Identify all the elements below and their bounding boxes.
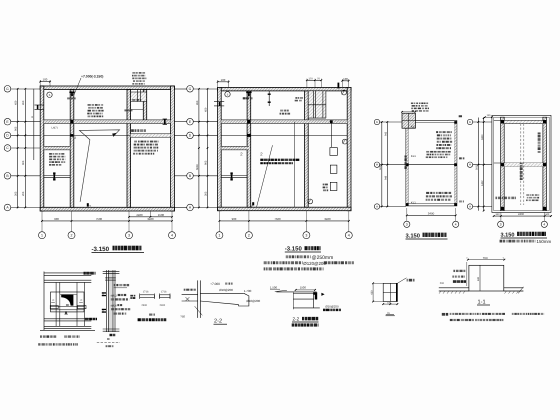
detailF left dim xyxy=(372,283,374,301)
plan1 I-tick at B row xyxy=(53,172,55,174)
plan1 bottom extension lines xyxy=(41,211,43,231)
detailG top dim 700 xyxy=(468,259,504,261)
plan2 section circle bottom xyxy=(308,199,313,204)
detailC bar2 xyxy=(160,295,170,298)
svg-text:Ø10@200: Ø10@200 xyxy=(246,299,260,303)
svg-text:3.150: 3.150 xyxy=(501,232,515,238)
detailA wall verticals xyxy=(55,282,57,326)
plan2 subtitle line3 xyxy=(264,267,265,270)
svg-text:303: 303 xyxy=(204,191,207,196)
plan1 annotation block c rooms left xyxy=(49,153,52,155)
svg-text:903: 903 xyxy=(22,160,25,165)
detailB second rung xyxy=(105,277,116,279)
svg-text:1402: 1402 xyxy=(481,180,484,186)
plan4 bottom dim xyxy=(494,215,551,217)
plan2 bold note line1 xyxy=(260,159,263,161)
plan2 subtitle line2 xyxy=(264,261,267,264)
svg-text:2-2: 2-2 xyxy=(293,317,300,322)
detailA bold label row3 xyxy=(85,318,89,320)
svg-text:1-1: 1-1 xyxy=(478,299,486,305)
plan2 leader line for note xyxy=(257,145,273,207)
detailF flag leader xyxy=(397,278,406,284)
plan1 row D line and band xyxy=(44,134,171,136)
plan2 subtitle line1 xyxy=(286,255,289,258)
detailA slab lines row4 xyxy=(44,325,91,327)
plan3 rotated WKL1 label xyxy=(404,155,406,169)
detailA center square outer xyxy=(51,292,85,312)
detailC bold caption xyxy=(138,318,141,321)
svg-text:KL1: KL1 xyxy=(411,154,416,158)
plan2 bold note line2 xyxy=(260,162,263,164)
plan2 bottom extension lines xyxy=(218,211,220,232)
plan3 bottom grid circles xyxy=(404,221,410,227)
detailA center bottom tick xyxy=(65,311,66,314)
plan2 row B double line with I-tick xyxy=(221,175,247,177)
detailD texts xyxy=(184,289,186,291)
plan2 top dim 100 right xyxy=(342,80,348,82)
plan1 node at 2-E xyxy=(70,120,73,123)
detailA black hook blob xyxy=(61,295,73,306)
svg-text:3400: 3400 xyxy=(324,217,331,221)
detailA slab lines row2 xyxy=(44,279,91,281)
plan4 nodes xyxy=(501,120,504,123)
svg-text:A: A xyxy=(376,205,378,209)
plan1 annotation text 500x500 opening xyxy=(131,129,134,132)
detailD right slab xyxy=(200,292,244,294)
svg-text:-3.150: -3.150 xyxy=(285,245,303,252)
plan4 row K band xyxy=(504,120,543,123)
plan1 outer wall top xyxy=(40,86,174,90)
plan3 outline xyxy=(406,121,457,206)
svg-text:600: 600 xyxy=(477,276,480,281)
plan1 ramp polyline xyxy=(79,130,119,202)
plan3 row H line xyxy=(406,164,457,166)
plan2 left dimension chains xyxy=(198,89,200,208)
svg-text:5000: 5000 xyxy=(476,164,479,170)
svg-text:700: 700 xyxy=(483,256,488,260)
detailC bar1 xyxy=(140,295,155,298)
detailG left arm xyxy=(439,287,469,289)
svg-text:4: 4 xyxy=(543,223,545,227)
plan3 text block right3 xyxy=(426,192,429,194)
plan2 section mark 2 bottom xyxy=(252,202,254,205)
detailE slab body xyxy=(293,293,315,295)
plan4 bottom annotation right xyxy=(526,194,529,196)
svg-text:340: 340 xyxy=(545,213,550,216)
detailA caption line2 xyxy=(38,343,40,345)
svg-text:4Ø12: 4Ø12 xyxy=(111,295,118,298)
svg-text:100: 100 xyxy=(221,78,226,82)
plan2 outer wall top xyxy=(218,87,351,91)
plan1 left dimension chains xyxy=(17,89,19,208)
svg-text:1: 1 xyxy=(41,234,43,238)
detailF rect body xyxy=(383,283,397,301)
plan1 top dim 100 xyxy=(40,81,50,83)
svg-text:3: 3 xyxy=(406,223,408,227)
svg-text:3.150: 3.150 xyxy=(406,232,421,239)
detailA ear left xyxy=(50,306,58,309)
detailA MX text xyxy=(66,304,69,305)
svg-text:KL1: KL1 xyxy=(411,125,416,129)
plan4 rotated label KL1 center xyxy=(520,163,523,180)
plan1 interior wall right of stair xyxy=(143,90,146,122)
plan1 wall band row C xyxy=(44,146,70,150)
svg-text:170: 170 xyxy=(308,77,313,80)
plan1 grid row lines xyxy=(11,88,40,90)
plan2 node at 2-E xyxy=(247,120,251,124)
svg-text:5000: 5000 xyxy=(379,164,382,170)
detailG left text rows xyxy=(453,270,454,272)
plan2 annotation 150 150 above xyxy=(243,97,246,99)
svg-text:L4(7): L4(7) xyxy=(52,127,58,130)
plan3 grid row extension lines xyxy=(380,121,406,123)
plan2 flag at top of grid2 wall xyxy=(246,92,251,94)
svg-text:4: 4 xyxy=(171,234,173,238)
svg-text:?50: ?50 xyxy=(180,315,185,319)
plan3 wall hatch right xyxy=(455,122,457,203)
detailA bold label 150X750 top xyxy=(84,272,86,275)
plan1 annotation block b above top-right xyxy=(132,72,135,74)
detailA center square inner xyxy=(60,295,77,312)
svg-text:600: 600 xyxy=(370,290,373,295)
plan2 bottom dimension row xyxy=(219,220,348,222)
notes heading xyxy=(442,313,445,316)
plan4 bottom grid circles xyxy=(498,221,504,227)
svg-text:450: 450 xyxy=(22,100,25,105)
plan1 right shared grid circles xyxy=(187,86,194,93)
svg-text:2: 2 xyxy=(89,205,91,209)
svg-text:G: G xyxy=(189,87,192,91)
detailE ground slash xyxy=(275,290,287,291)
plan2 room divider line xyxy=(294,122,296,208)
plan1 outer wall right xyxy=(171,86,175,211)
svg-text:2400: 2400 xyxy=(142,304,148,307)
detailG right arm xyxy=(504,287,524,289)
svg-text:2: 2 xyxy=(248,234,250,238)
plan4 dashed beam lines xyxy=(520,124,522,205)
plan1 bottom dimension row1 2400 1500 xyxy=(129,216,172,218)
svg-text:5600: 5600 xyxy=(196,164,199,170)
detailE top line xyxy=(276,291,316,293)
svg-text:2: 2 xyxy=(71,234,73,238)
svg-text:1.700: 1.700 xyxy=(244,289,252,293)
svg-text:+7.000(-3.150): +7.000(-3.150) xyxy=(81,74,103,78)
plan3 nodes xyxy=(406,163,409,166)
svg-text:4Ø20: 4Ø20 xyxy=(111,305,118,308)
plan1 annotation 150 150 xyxy=(67,97,70,99)
plan2 interior axis circle 5 xyxy=(225,92,230,97)
plan1 small label 40x40 xyxy=(124,109,126,111)
plan2 annotation 150 150 near wall2 xyxy=(243,97,246,99)
detailB bold mark right xyxy=(130,295,133,297)
plan3 text block right1 xyxy=(436,131,438,133)
plan2 wall band row E xyxy=(221,120,347,124)
plan2 grid extension lines from shared circles xyxy=(194,88,218,90)
svg-text:943: 943 xyxy=(385,131,388,136)
plan1 flag at top of grid2 wall xyxy=(69,92,74,94)
svg-text:900: 900 xyxy=(232,217,237,221)
svg-text:3400: 3400 xyxy=(481,134,484,140)
svg-text:4: 4 xyxy=(455,223,457,227)
detailC arrow marks xyxy=(149,314,152,316)
plan4 left grid circles xyxy=(467,119,472,124)
plan1 annotation block a xyxy=(88,104,91,106)
detailA caption line1 xyxy=(40,335,42,337)
plan2 stair block xyxy=(309,91,326,118)
plan4 subtitle xyxy=(500,240,503,243)
detailF bottom dim xyxy=(383,303,397,305)
detailD right end hook xyxy=(239,293,249,306)
plan1 stair block xyxy=(131,92,146,102)
svg-text:K: K xyxy=(469,120,471,124)
plan1 row B double line xyxy=(44,175,70,177)
plan2 beam tick left edge xyxy=(219,102,221,106)
svg-text:450: 450 xyxy=(196,100,199,105)
svg-text:2400: 2400 xyxy=(160,304,166,307)
svg-text:KL1: KL1 xyxy=(411,200,416,204)
detailB top wide rung xyxy=(103,270,120,272)
plan3 text above xyxy=(411,103,413,105)
plan1 interior axis circle 5 xyxy=(47,92,52,97)
plan2 interior wall grid3 xyxy=(305,91,309,207)
svg-text:1500: 1500 xyxy=(300,286,307,290)
plan2 top dim 170 70 xyxy=(307,79,321,81)
plan2 bottom grid circles xyxy=(216,232,223,239)
detailD leader diagonal xyxy=(195,306,203,315)
detailD vertical member xyxy=(197,280,199,318)
svg-text:7500: 7500 xyxy=(274,217,281,221)
detailB anchor marks left lower xyxy=(102,309,106,310)
svg-text:H: H xyxy=(376,163,378,167)
detailG hatch ticks under arms xyxy=(439,291,441,294)
plan2 section line with flags near top xyxy=(268,91,270,106)
detailB label below xyxy=(110,334,113,336)
plan2 interior wall grid2 xyxy=(247,91,251,207)
svg-text:100: 100 xyxy=(343,77,348,81)
detailB text finish surface xyxy=(114,284,115,286)
svg-text:450: 450 xyxy=(15,100,18,105)
plan1 left grid circles xyxy=(4,86,11,93)
detailA slab lines row3 xyxy=(44,318,91,320)
plan3 top-left column block xyxy=(402,113,415,128)
plan2 top dim 100 left xyxy=(218,81,229,83)
plan3 text block right2 xyxy=(426,151,429,153)
svg-text:Ø10@250: Ø10@250 xyxy=(325,305,339,309)
plan1 wall band row E xyxy=(44,120,171,124)
plan4 interior wall left xyxy=(501,117,505,210)
svg-text:1500: 1500 xyxy=(158,213,165,217)
plan2 outer wall right xyxy=(347,87,351,210)
svg-text:+7.000: +7.000 xyxy=(210,282,220,286)
plan1 annotation block d right room xyxy=(134,141,137,143)
svg-text:3400: 3400 xyxy=(428,212,435,216)
svg-text:340: 340 xyxy=(496,213,501,216)
svg-text:903: 903 xyxy=(204,160,207,165)
plan4 row H band xyxy=(494,162,547,164)
plan2 row D line xyxy=(221,134,347,136)
plan1 outer wall left xyxy=(40,86,44,211)
detailF thick right edge xyxy=(396,283,398,301)
plan3 left grid circles xyxy=(374,119,379,124)
plan2 section circle right mid xyxy=(342,139,347,144)
svg-text:A: A xyxy=(469,205,471,209)
detailB dashed line bottom xyxy=(97,341,120,343)
svg-text:Ø10@200: Ø10@200 xyxy=(219,288,233,292)
plan1 bottom dimension row2 xyxy=(42,220,172,222)
detailA slab lines row1 xyxy=(44,272,91,274)
plan4 rotated label WKL1 right xyxy=(538,132,541,152)
detailA left vertical line xyxy=(43,272,45,331)
detailE arrow xyxy=(321,293,324,296)
plan3 bottom dim xyxy=(407,214,456,216)
plan1 node at 2-D xyxy=(71,134,74,137)
svg-text:2400: 2400 xyxy=(518,213,524,216)
svg-text:-3.150: -3.150 xyxy=(92,246,110,253)
detailE caption bold sub xyxy=(292,323,294,326)
svg-text:2-2: 2-2 xyxy=(214,319,222,325)
plan4 bottom annotation left xyxy=(495,197,497,200)
plan2 thin wall line x331 xyxy=(330,122,332,147)
svg-text:G: G xyxy=(6,87,9,91)
plan1 section mark 2 bottom xyxy=(87,203,89,206)
svg-text:905: 905 xyxy=(15,126,18,131)
plan2 opening symbol 1 xyxy=(330,148,337,156)
svg-text:C: C xyxy=(81,299,83,302)
plan2 node at x331-E xyxy=(330,120,333,123)
plan2 opening symbol 2 xyxy=(330,165,337,173)
plan4 dimension chains xyxy=(477,118,479,211)
notes line2 xyxy=(450,319,453,321)
svg-text:3400: 3400 xyxy=(147,217,154,221)
plan4 grid row extension lines xyxy=(473,121,492,123)
plan4 top-left small dim xyxy=(485,116,492,118)
svg-text:1716: 1716 xyxy=(161,291,167,294)
svg-text:100: 100 xyxy=(43,78,48,82)
plan2 section circle right top xyxy=(342,90,347,95)
svg-text:303: 303 xyxy=(15,191,18,196)
plan4 interior wall right xyxy=(543,117,547,210)
plan2 outer wall left xyxy=(218,87,222,210)
plan3 right side KL labels xyxy=(459,115,462,117)
detailB bottom wide rung xyxy=(103,328,120,330)
svg-text:K: K xyxy=(376,120,378,124)
small dash left of notes xyxy=(386,315,396,317)
svg-text:450: 450 xyxy=(204,107,207,112)
plan1 bottom grid circles 1-4 xyxy=(39,232,46,239)
svg-text:1.500: 1.500 xyxy=(270,285,277,289)
svg-text:2: 2 xyxy=(74,136,76,140)
plan3 dimension chains xyxy=(381,122,383,207)
plan2 outer wall bottom xyxy=(218,207,351,211)
svg-text:4: 4 xyxy=(348,234,350,238)
svg-text:Ø120@200: Ø120@200 xyxy=(303,261,326,266)
plan1 beam tick on row E right xyxy=(164,119,166,124)
detailA bottom band xyxy=(50,306,84,308)
svg-text:946: 946 xyxy=(385,175,388,180)
detailA ear right xyxy=(78,306,87,309)
detailB wall grey infill xyxy=(108,270,113,332)
plan2 annotation beam up xyxy=(295,97,296,99)
plan1 interior wall grid3 xyxy=(127,90,131,208)
svg-text:200: 200 xyxy=(440,282,445,285)
svg-text:M: M xyxy=(31,116,34,118)
plan4 outline xyxy=(492,115,551,212)
plan1 beam tick left edge xyxy=(37,105,39,109)
detailB vertical wall double lines xyxy=(106,270,108,332)
svg-text:2400: 2400 xyxy=(136,213,143,217)
detailD left slab stub xyxy=(182,294,198,296)
notes line1 xyxy=(450,313,452,315)
detailB anchor marks left upper xyxy=(102,292,106,293)
plan2 node at 2-D xyxy=(247,134,250,137)
svg-text:1716: 1716 xyxy=(143,291,149,294)
plan3 wall hatch left xyxy=(406,122,408,203)
svg-text:3: 3 xyxy=(305,234,307,238)
plan2 annotation right col xyxy=(280,110,283,112)
plan1 interior wall grid2 xyxy=(70,90,74,208)
svg-text:/1: /1 xyxy=(387,311,390,315)
svg-text:H: H xyxy=(469,163,471,167)
svg-text:1: 1 xyxy=(218,234,220,238)
svg-text:203: 203 xyxy=(22,191,25,196)
plan2 opening symbol 3 xyxy=(330,182,337,190)
plan2 tick through top wall right xyxy=(338,83,340,89)
svg-text:C: C xyxy=(53,299,55,302)
plan1 outer wall bottom xyxy=(40,207,174,211)
svg-text:3: 3 xyxy=(128,234,130,238)
detailA bottom boundary xyxy=(40,329,95,331)
plan2 annotation 10@200 room right xyxy=(323,184,325,186)
svg-text:900: 900 xyxy=(54,217,59,221)
svg-text:150mm: 150mm xyxy=(537,239,552,244)
plan1 small label stair xyxy=(132,99,135,101)
svg-text:3: 3 xyxy=(500,223,502,227)
plan2 wall band row C xyxy=(221,146,249,150)
detailG hat box xyxy=(469,265,504,291)
svg-text:7500: 7500 xyxy=(96,217,103,221)
